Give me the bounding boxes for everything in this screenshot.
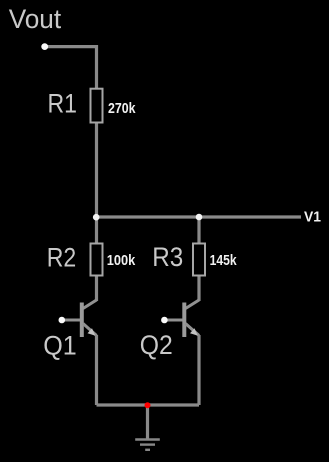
wire V1 junction to R3 top	[197, 217, 200, 243]
wire R1 bottom to node V1 junction	[95, 124, 98, 218]
terminal node Q1 base	[59, 317, 66, 324]
terminal node Q2 base	[161, 317, 168, 324]
svg-text:Q2: Q2	[140, 330, 173, 360]
wire R3 bottom to Q2 collector	[197, 277, 200, 302]
svg-text:Vout: Vout	[9, 4, 62, 34]
resistor R2	[91, 244, 103, 276]
svg-text:Q1: Q1	[43, 330, 76, 360]
terminal node Vout	[41, 43, 48, 50]
junction node ground (red)	[145, 402, 151, 408]
junction node V1 at R3	[196, 214, 203, 221]
transistor Q2	[165, 300, 200, 337]
wire ground stem	[146, 405, 149, 439]
svg-text:V1: V1	[304, 209, 321, 225]
wire net V1 horizontal	[97, 215, 302, 218]
svg-text:145k: 145k	[210, 253, 238, 269]
resistor R3	[193, 244, 205, 276]
svg-text:100k: 100k	[107, 253, 136, 269]
junction node V1 at R1/R2	[93, 214, 100, 221]
wire Q2 emitter down	[197, 335, 200, 405]
wire R2 bottom to Q1 collector	[95, 277, 98, 302]
resistor R1	[91, 89, 103, 123]
wire Vout terminal to R1 top	[45, 47, 97, 89]
svg-text:R3: R3	[152, 242, 183, 272]
transistor Q1	[62, 300, 97, 337]
wire V1 junction to R2 top	[95, 217, 98, 243]
svg-text:270k: 270k	[108, 101, 136, 117]
wire Q1 emitter down	[95, 335, 98, 405]
wire emitter bus	[97, 403, 200, 406]
svg-text:R2: R2	[47, 242, 76, 272]
svg-text:R1: R1	[48, 88, 78, 118]
ground	[135, 440, 160, 450]
